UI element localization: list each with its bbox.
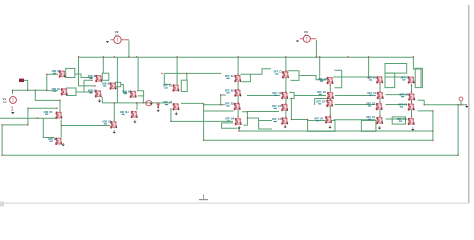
svg-text:DFF_B4: DFF_B4 [225,117,234,121]
svg-text:DFF_F2: DFF_F2 [400,92,409,96]
svg-text:XOR_B4: XOR_B4 [122,89,131,93]
svg-text:AND_BL4: AND_BL4 [120,110,129,114]
svg-text:PU: PU [115,35,118,37]
svg-text:DFF_C3: DFF_C3 [272,104,281,108]
svg-text:DFF_D3: DFF_D3 [317,100,326,104]
svg-text:DFF_D1: DFF_D1 [318,77,327,81]
svg-text:DFF_A1: DFF_A1 [163,84,172,88]
svg-text:DFF_C2: DFF_C2 [272,91,281,95]
svg-text:DFF_C1: DFF_C1 [274,70,283,74]
svg-text:AND_BL: AND_BL [52,69,61,73]
svg-text:DFF_B2: DFF_B2 [225,89,234,93]
svg-text:1: 1 [11,107,14,113]
svg-text:AND_BL: AND_BL [52,87,61,91]
svg-text:DFF_D2: DFF_D2 [317,90,326,94]
svg-text:DFF_B1: DFF_B1 [225,74,234,78]
svg-text:XOR_B5: XOR_B5 [102,120,111,124]
svg-text:DFF_E3: DFF_E3 [366,102,375,106]
svg-text:DFF_E2: DFF_E2 [368,91,377,95]
svg-text:DFF_F1: DFF_F1 [401,76,410,80]
svg-text:PU: PU [305,35,308,37]
svg-text:PW: PW [3,102,7,104]
svg-text:DFF_C4: DFF_C4 [272,117,281,121]
svg-text:DFF_B3: DFF_B3 [225,102,234,106]
svg-text:V2: V2 [115,30,119,34]
svg-text:XOR_B7: XOR_B7 [48,137,57,141]
svg-text:XOR_B6: XOR_B6 [44,110,53,114]
svg-text:V3: V3 [304,30,308,34]
svg-text:DFF_A2: DFF_A2 [163,100,172,104]
svg-text:DFF_E4: DFF_E4 [366,115,375,119]
svg-text:DFF_D4: DFF_D4 [315,116,324,120]
svg-text:XOR_B3: XOR_B3 [102,82,111,86]
svg-text:DFF_F3: DFF_F3 [398,103,407,107]
svg-text:DFF_F4: DFF_F4 [397,117,406,121]
svg-text:V1: V1 [3,97,7,101]
